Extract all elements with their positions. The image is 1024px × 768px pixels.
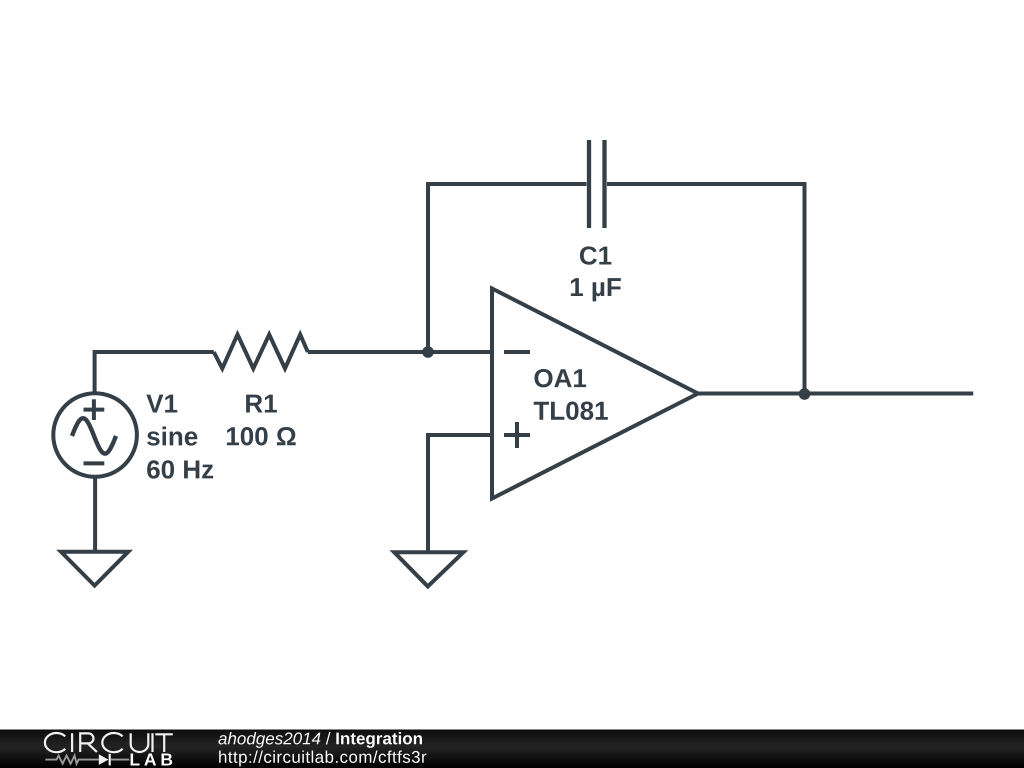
op-amp OA1 inverting input marker <box>504 350 530 354</box>
footer url <box>219 750 426 766</box>
CircuitLab logo word LAB <box>131 753 173 765</box>
label 1 uF <box>571 278 621 301</box>
label V1 <box>146 395 177 413</box>
resistor R1 <box>214 335 308 369</box>
footer bar <box>0 730 1024 768</box>
ground at op-amp non-inverting input <box>394 552 463 586</box>
logo resistor squiggle <box>45 756 129 764</box>
output wire <box>698 392 973 396</box>
voltage source V1 circle <box>53 393 137 477</box>
wire non-inverting input to ground <box>428 435 492 553</box>
op-amp OA1 non-inverting input marker <box>504 422 530 448</box>
ground at V1 <box>61 552 128 586</box>
CircuitLab logo word CIRCUIT <box>45 733 173 752</box>
wire V1 top to resistor R1 <box>95 352 214 394</box>
capacitor C1 plates <box>589 140 605 228</box>
label sine <box>147 427 197 446</box>
label R1 <box>246 395 277 413</box>
label 100 ohm <box>227 427 296 445</box>
V1 plus polarity sign <box>84 399 105 420</box>
wire resistor to op-amp inverting input <box>308 350 492 354</box>
label C1 <box>580 246 611 264</box>
node dot at inverting input <box>422 346 434 358</box>
node dot at output <box>799 388 811 400</box>
label 60 Hz <box>147 460 213 478</box>
logo diode triangle <box>99 754 109 765</box>
logo diode cathode bar <box>109 754 111 766</box>
V1 minus polarity sign <box>84 461 105 465</box>
V1 sine waveform symbol <box>72 418 116 453</box>
op-amp OA1 triangle <box>492 289 698 499</box>
label OA1 <box>534 369 586 387</box>
label TL081 <box>534 402 608 420</box>
wire capacitor C1 to output node <box>607 184 805 394</box>
wire feedback node to capacitor C1 <box>428 184 587 352</box>
wire V1 bottom to ground <box>93 476 97 553</box>
footer title: ahodges2014 / Integration <box>218 732 422 748</box>
